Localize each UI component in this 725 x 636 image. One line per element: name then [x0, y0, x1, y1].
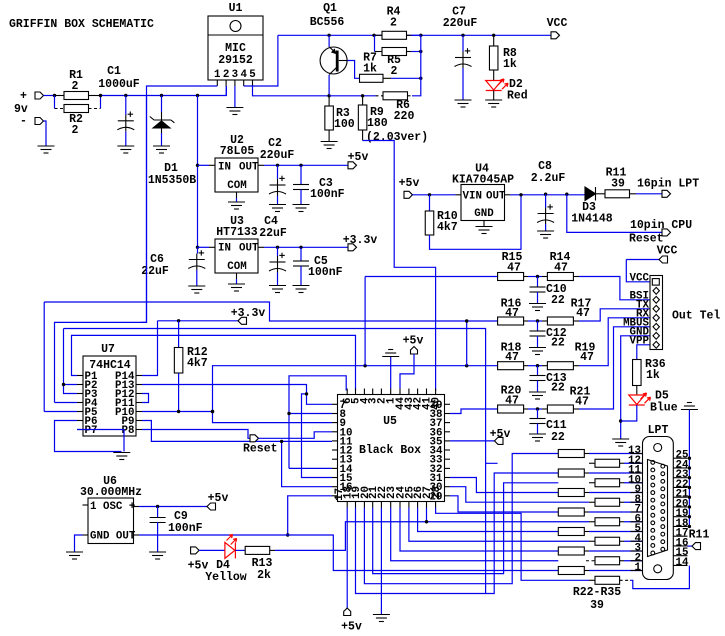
wire VPP to R36 [637, 345, 650, 360]
wire U7 P2 P3 net to LPT12 [64, 329, 498, 594]
resistor array pin1 [558, 567, 584, 575]
U5 left pin 8 [332, 413, 338, 415]
U5 bottom pin 25 [408, 502, 410, 508]
svg-text:22: 22 [551, 337, 565, 350]
wire U1 pin3 ground stub [234, 86, 236, 108]
wire LPT right ground bus [688, 417, 690, 527]
ground D1 [153, 146, 170, 153]
wire U7 P6 to ground [55, 421, 122, 452]
svg-text:1000uF: 1000uF [98, 78, 140, 91]
svg-text:2k: 2k [257, 569, 271, 582]
U5 top pin 41 [426, 389, 428, 395]
wire right column R4-R7-R6 [412, 35, 421, 96]
resistor array pin4 [595, 537, 620, 545]
ground C12 [529, 348, 546, 355]
svg-text:22uF: 22uF [141, 265, 169, 278]
svg-text:180: 180 [367, 117, 388, 130]
resistor array pin7 [558, 508, 584, 516]
wire R18 row long net [213, 366, 498, 412]
wire R9 to U5 pin40 net [362, 130, 364, 141]
svg-text:BC556: BC556 [310, 16, 345, 29]
U5 left pin 15 [332, 477, 338, 479]
svg-text:OUT: OUT [239, 162, 259, 174]
ground U6 [66, 552, 83, 559]
svg-text:78L05: 78L05 [220, 145, 255, 158]
svg-text:1k: 1k [503, 58, 517, 71]
U5 left pin 17 [332, 495, 338, 497]
svg-text:GND: GND [474, 208, 494, 220]
wire U4 out row [510, 194, 585, 196]
wire U1 pins4+5 to VCC riser [244, 35, 278, 86]
svg-text:1N4148: 1N4148 [571, 213, 613, 226]
svg-text:Red: Red [507, 90, 528, 103]
wire Q1 base to R7 [339, 60, 348, 62]
U5 right pin 39 [445, 403, 451, 405]
wire U7 P4 stub [55, 402, 78, 404]
svg-text:22: 22 [551, 431, 565, 444]
U5 right pin 33 [445, 458, 451, 460]
svg-text:GRIFFIN BOX SCHEMATIC: GRIFFIN BOX SCHEMATIC [9, 18, 154, 31]
wire D5 to ground [621, 405, 637, 421]
ground U2 [236, 198, 238, 202]
wire U7 P1 net [72, 335, 356, 390]
resistor R21 [547, 405, 573, 413]
wire R13 to LPT6 row [275, 522, 589, 551]
svg-text:Black Box: Black Box [359, 444, 421, 457]
ground U7 [113, 453, 130, 460]
wire U5 pin16 riser [282, 441, 332, 486]
resistor array pin3 [558, 547, 584, 555]
wire U5 pin30 to LPT8 [450, 487, 589, 503]
svg-text:1: 1 [635, 562, 642, 574]
svg-text:47: 47 [576, 307, 590, 320]
svg-text:2: 2 [223, 69, 229, 81]
resistor array pin6 [595, 518, 620, 526]
resistor array pin14 [595, 576, 620, 584]
U7 pin P7 [77, 429, 83, 431]
svg-text:Yellow: Yellow [205, 571, 247, 584]
wire riser to +3.3v rail [466, 321, 468, 366]
wire +5v to U4 VIN [413, 194, 456, 196]
wire U7 P8 to Reset port [142, 430, 250, 439]
wire VCC rail y=35.3 [278, 34, 551, 36]
svg-text:100: 100 [334, 118, 355, 131]
ground C5 [293, 286, 310, 293]
wire U5 pin38 to R20 row [450, 409, 498, 414]
resistor R16 [498, 317, 524, 325]
ground C3 [293, 205, 310, 212]
U7 pin P3 [77, 393, 83, 395]
svg-text:Reset: Reset [243, 443, 278, 456]
wire U7 P10 net with R12 [142, 412, 332, 423]
svg-text:14: 14 [676, 557, 689, 569]
wire +3.3v left bus [44, 302, 499, 321]
svg-text:100nF: 100nF [310, 188, 345, 201]
U5 right pin 34 [445, 449, 451, 451]
wire Reset port to U5 pin10 [259, 432, 333, 439]
ground U5 pin22 [373, 615, 390, 622]
wire U5 pin18 to +5v port [346, 508, 348, 609]
wire P14 riser [142, 321, 158, 376]
svg-text:5: 5 [249, 69, 255, 81]
svg-text:Out Tel: Out Tel [672, 310, 720, 323]
resistor array pin11 [558, 469, 584, 477]
svg-text:VPP: VPP [630, 335, 650, 347]
wire +5v port to pin44 [400, 354, 414, 389]
svg-text:29152: 29152 [218, 54, 253, 67]
wire input rail drop to U2/U3 [197, 96, 199, 248]
ground 9v- [38, 146, 55, 153]
ground C11 [529, 434, 546, 441]
connector Out Tel [650, 276, 663, 350]
U5 left pin 12 [332, 449, 338, 451]
wire R5 right to column [411, 51, 421, 53]
svg-text:16pin LPT: 16pin LPT [637, 178, 699, 191]
svg-text:22: 22 [551, 382, 565, 395]
wire +3.3v port segment [158, 320, 239, 322]
U7 pin P5 [77, 411, 83, 413]
ground C10 [529, 304, 546, 311]
svg-text:2: 2 [390, 17, 397, 30]
wire U6 gnd [75, 535, 83, 552]
U7 pin P4 [77, 402, 83, 404]
ground above U5 for pin1 [390, 357, 392, 389]
U5 left pin 16 [332, 486, 338, 488]
port 9v- [35, 118, 44, 125]
svg-text:39: 39 [611, 178, 625, 191]
wire + to R1 [44, 95, 55, 97]
svg-text:100nF: 100nF [308, 266, 343, 279]
U5 bottom pin 21 [372, 502, 374, 508]
U5 bottom pin 18 [346, 502, 348, 508]
ground U1 pin3 [226, 108, 243, 115]
U5 bottom pin 26 [417, 502, 419, 508]
U5 right pin 37 [445, 422, 451, 424]
resistor R17 [547, 317, 573, 325]
wire U5 pin8 to pin6 and pin14 [289, 376, 346, 469]
svg-text:3: 3 [232, 69, 238, 81]
ground C1 [117, 146, 134, 153]
svg-text:U1: U1 [229, 2, 243, 15]
U5 right pin 35 [445, 440, 451, 442]
U7 pin P8 [136, 429, 142, 431]
svg-text:220uF: 220uF [443, 17, 478, 30]
svg-text:2: 2 [391, 65, 398, 78]
svg-text:39: 39 [590, 599, 604, 612]
wire collector rail to R6 [329, 95, 375, 97]
wire U5 pin19 to LPT11 [356, 473, 559, 594]
U7 pin P13 [136, 384, 142, 386]
wire U6 + to +5v port [139, 506, 207, 508]
svg-text:220uF: 220uF [260, 149, 295, 162]
U5 right pin 31 [445, 477, 451, 479]
svg-text:10pin CPU: 10pin CPU [630, 219, 692, 232]
svg-text:47: 47 [575, 396, 589, 409]
svg-text:+5v: +5v [399, 177, 420, 190]
ground C8 [537, 231, 554, 238]
svg-text:R11: R11 [689, 529, 710, 542]
U7 pin P6 [77, 420, 83, 422]
svg-text:22: 22 [551, 294, 565, 307]
svg-text:220: 220 [394, 110, 415, 123]
U5 bottom pin 27 [426, 502, 428, 508]
wire R15 row feed [365, 277, 498, 366]
ground C9 [149, 552, 166, 559]
wire U5 pin14 stub [289, 467, 332, 469]
svg-text:VCC: VCC [547, 17, 568, 30]
U7 pin P14 [136, 375, 142, 377]
ground U3 [236, 279, 238, 284]
wire U5 pin28 to LPT14 row [436, 508, 589, 581]
resistor array pin12 [595, 459, 620, 467]
U5 left pin 9 [332, 422, 338, 424]
wire U7 P13 to U5 pin7 [142, 385, 332, 405]
resistor array pin8 [595, 498, 620, 506]
U7 pin P1 [77, 375, 83, 377]
U5 top pin 5 [355, 389, 357, 395]
ground D5 net [612, 439, 629, 446]
U5 top pin 4 [363, 389, 365, 395]
wire U1 pin1 to feedback net [142, 86, 218, 322]
U5 top pin 2 [380, 389, 382, 395]
U5 right pin 29 [445, 495, 451, 497]
resistor R15 [498, 273, 524, 281]
svg-text:(2.03ver): (2.03ver) [366, 131, 428, 144]
ground R3 [321, 142, 338, 149]
U7 pin P9 [136, 420, 142, 422]
svg-text:28: 28 [431, 486, 443, 499]
svg-text:1N5350B: 1N5350B [148, 174, 196, 187]
IC U5 Black Box [338, 395, 445, 502]
wire R17 to TX [579, 309, 650, 321]
wire U1 pin2 riser [225, 86, 227, 96]
ground C6 [188, 286, 205, 293]
U5 right pin 30 [445, 486, 451, 488]
U7 pin P2 [77, 384, 83, 386]
svg-text:IN: IN [218, 243, 231, 255]
wire U7 P7 to ground [77, 430, 124, 452]
U5 bottom pin 20 [363, 502, 365, 508]
U5 right pin 32 [445, 467, 451, 469]
wire +3.3v rail from U3 net [55, 96, 147, 403]
ground U4 [476, 227, 493, 234]
svg-text:+5v: +5v [341, 621, 362, 634]
U5 right pin 38 [445, 413, 451, 415]
wire U7 P9 to U5 pin11 [142, 421, 332, 442]
wire 9v- to ground [44, 121, 47, 146]
svg-text:100nF: 100nF [168, 522, 203, 535]
resistor array pin5 [558, 528, 584, 536]
ground C13 [529, 392, 546, 399]
U5 top pin 42 [417, 389, 419, 395]
svg-text:HT7133: HT7133 [216, 226, 258, 239]
resistor array pin9 [558, 489, 584, 497]
wire main 9v rail y=95.5 [101, 86, 227, 96]
ground C7 [455, 100, 472, 107]
svg-text:OUT: OUT [239, 243, 259, 255]
svg-text:+: + [20, 90, 27, 103]
wire VCC port to connector [626, 260, 650, 282]
wire reset to 10pin CPU [567, 194, 662, 232]
svg-text:1k: 1k [646, 369, 660, 382]
U5 top pin 43 [408, 389, 410, 395]
U5 bottom pin 28 [435, 502, 437, 508]
wire R14 to BSI [579, 277, 650, 300]
wire Q1 emitter [328, 35, 330, 47]
wire U5 pin20 to LPT13 [364, 454, 558, 584]
wire U5 pin21 to LPT10 [373, 483, 559, 574]
resistor R20 [498, 405, 524, 413]
svg-text:IN: IN [218, 162, 231, 174]
U5 left pin 11 [332, 440, 338, 442]
U5 right pin 36 [445, 431, 451, 433]
wire U2 out to +5v port [264, 164, 348, 166]
svg-text:Blue: Blue [650, 402, 678, 415]
wire R21 to MBUS [579, 327, 650, 409]
U5 left pin 13 [332, 458, 338, 460]
wire U7 P12 P11 bracket [142, 394, 149, 403]
U5 bottom pin 22 [380, 502, 382, 508]
resistor R19 [547, 362, 573, 370]
U5 left pin 14 [332, 467, 338, 469]
resistor array pin13 [558, 450, 584, 458]
wire R1 R2 parallel joints [55, 96, 101, 109]
wire R4 right to column [411, 34, 421, 36]
svg-text:2: 2 [72, 124, 79, 137]
svg-text:U5: U5 [383, 415, 397, 428]
svg-text:1 OSC +: 1 OSC + [90, 501, 135, 513]
svg-text:GND OUT: GND OUT [90, 531, 136, 543]
wire U5 pin35 to +5v port [450, 440, 495, 442]
U5 bottom pin 24 [399, 502, 401, 508]
wire U5 pin24 to LPT3 [400, 508, 558, 552]
resistor array pin2 [595, 557, 620, 565]
U7 pin P11 [136, 402, 142, 404]
U5 top pin 44 [399, 389, 401, 395]
wire U7 P5 stub [44, 411, 77, 413]
svg-text:-: - [20, 115, 27, 128]
resistor R18 [498, 362, 524, 370]
wire R5 left riser to rail [374, 35, 376, 51]
svg-text:2.2uF: 2.2uF [531, 172, 566, 185]
wire U5 pin23 to LPT2 [391, 508, 559, 561]
ground D2 [485, 100, 502, 107]
U5 top pin 1 [390, 389, 392, 395]
U5 top pin 6 [346, 389, 348, 395]
resistor array pin10 [595, 479, 620, 487]
U7 pin P12 [136, 393, 142, 395]
svg-text:COM: COM [227, 180, 246, 192]
U5 top pin 3 [372, 389, 374, 395]
svg-text:LPT: LPT [648, 424, 669, 437]
ground C2 [269, 205, 286, 212]
U5 left pin 7 [332, 403, 338, 405]
svg-text:4: 4 [240, 69, 247, 81]
svg-text:VIN: VIN [463, 191, 482, 203]
wire GND pin to ground [621, 336, 650, 439]
ground LPT right [681, 403, 698, 410]
wire U3 in [198, 246, 210, 248]
svg-text:+3.3v: +3.3v [231, 307, 266, 320]
U5 bottom pin 19 [355, 502, 357, 508]
svg-text:22uF: 22uF [259, 227, 287, 240]
U5 left pin 10 [332, 431, 338, 433]
wire R19 to RX [579, 318, 650, 366]
svg-text:1: 1 [214, 69, 221, 81]
svg-text:4k7: 4k7 [437, 221, 458, 234]
svg-text:U7: U7 [101, 343, 115, 356]
U1 pin stubs [216, 80, 218, 86]
wire U6 osc out row [139, 535, 558, 571]
svg-text:OUT: OUT [486, 191, 506, 203]
svg-text:30.000MHz: 30.000MHz [80, 486, 142, 499]
wire Q1 collector [328, 75, 330, 96]
wire U5 pin27 to LPT6 [426, 508, 428, 522]
svg-text:47: 47 [580, 351, 594, 364]
wire R11 to port [636, 193, 662, 195]
U5 bottom pin 23 [390, 502, 392, 508]
svg-text:VCC: VCC [630, 272, 650, 284]
svg-text:R22-R35: R22-R35 [573, 586, 621, 599]
wire U5 pin31 to LPT9 [450, 478, 558, 493]
svg-text:1k: 1k [363, 63, 377, 76]
resistor R14 [547, 273, 573, 281]
wire U5 pin15 riser [302, 394, 333, 478]
svg-text:Q1: Q1 [323, 2, 337, 15]
svg-text:P7: P7 [85, 425, 98, 437]
wire U5 pin26 to LPT5 [418, 508, 559, 532]
wire array pin14 to LPT pin14 [630, 566, 689, 589]
svg-text:4k7: 4k7 [187, 357, 208, 370]
wire U3 out to +3.3v port [264, 246, 348, 248]
wire U2 in [198, 164, 210, 166]
wire U5 pin29 to LPT7 [450, 496, 558, 512]
wire U5 pin22 to ground [380, 508, 382, 615]
wire U1 pin5 to collector rail [253, 86, 330, 96]
wire R7 to right column [391, 77, 421, 79]
wire U5 pin17 to clock [288, 496, 332, 535]
svg-text:COM: COM [227, 261, 246, 273]
wire U5 pin25 to LPT4 [409, 508, 589, 542]
svg-text:C1: C1 [107, 65, 121, 78]
svg-text:+5v: +5v [403, 335, 424, 348]
U7 pin P10 [136, 411, 142, 413]
ground C4 [269, 286, 286, 293]
U5 top pin 40 [435, 389, 437, 395]
